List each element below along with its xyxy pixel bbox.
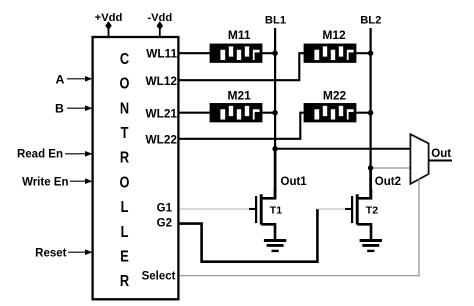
wire Select to mux — [180, 179, 420, 276]
ground (T1 source) — [264, 241, 286, 251]
transistor T1 — [249, 189, 275, 241]
svg-text:Out1: Out1 — [281, 176, 308, 188]
svg-text:Out2: Out2 — [375, 176, 401, 188]
junction dot Out1 — [272, 146, 277, 151]
+Vdd stem wire — [108, 28, 110, 38]
svg-text:Out: Out — [431, 148, 451, 160]
svg-text:BL2: BL2 — [360, 14, 381, 26]
svg-text:N: N — [120, 100, 129, 118]
svg-text:WL21: WL21 — [146, 107, 178, 121]
svg-text:Read En: Read En — [17, 148, 63, 160]
junction dot Out2 — [368, 165, 373, 170]
wire G2 jog to T2 gate — [317, 208, 347, 210]
transistor T2 — [345, 189, 371, 241]
memristor M22 — [304, 104, 355, 122]
input Write En wire arrow — [70, 178, 93, 184]
svg-text:R: R — [120, 273, 130, 291]
svg-text:A: A — [56, 73, 65, 87]
svg-text:R: R — [120, 149, 130, 167]
input Read En wire arrow — [65, 151, 93, 157]
svg-text:C: C — [120, 51, 130, 69]
wire M22 to BL2 — [355, 112, 371, 114]
controller vertical label C O N T R O L L E R — [120, 51, 130, 291]
svg-text:E: E — [120, 248, 129, 266]
wire M12 to BL2 — [355, 52, 371, 54]
svg-text:WL11: WL11 — [146, 47, 177, 61]
wire Out2 to mux — [371, 167, 411, 169]
junction dot M21/BL1 — [272, 110, 277, 115]
svg-text:M11: M11 — [228, 28, 251, 42]
svg-text:L: L — [121, 224, 129, 242]
svg-text:M22: M22 — [323, 89, 347, 103]
wire WL22 (steps up to M22) — [180, 113, 306, 139]
multiplexer U1 — [410, 134, 428, 184]
svg-text:M21: M21 — [228, 89, 252, 103]
svg-text:L: L — [121, 199, 129, 217]
svg-text:G2: G2 — [157, 218, 172, 230]
svg-text:WL22: WL22 — [146, 133, 178, 147]
wire G2 to T2 gate (detour path) — [180, 209, 318, 262]
junction dot M11/BL1 — [272, 51, 277, 56]
wire WL12 (steps up to M12) — [180, 53, 306, 80]
controller box — [93, 37, 179, 299]
junction dot M12/BL2 — [368, 51, 373, 56]
input Reset wire arrow — [68, 249, 93, 255]
memristor M11 — [210, 44, 261, 62]
svg-text:G1: G1 — [157, 203, 173, 215]
memristor M12 — [304, 44, 355, 62]
bit line BL1 wire — [274, 28, 276, 197]
+Vdd diamond terminal — [105, 21, 112, 30]
wire T2 drain (BL2 down to T2) — [369, 168, 372, 199]
svg-text:B: B — [55, 102, 64, 116]
svg-text:T1: T1 — [270, 204, 282, 216]
ground (T2 source) — [360, 241, 382, 251]
wire WL21 — [180, 112, 212, 114]
svg-text:Reset: Reset — [35, 247, 66, 259]
-Vdd stem wire — [159, 28, 161, 38]
memristor M21 — [210, 104, 261, 122]
junction dot M22/BL2 — [368, 110, 373, 115]
wire mux output — [429, 160, 452, 162]
wire G1 to T1 gate — [180, 208, 251, 210]
wire M11 to BL1 — [261, 52, 275, 54]
wire T1 drain (BL1 down to T1) — [274, 149, 277, 199]
svg-text:T: T — [121, 125, 129, 143]
svg-text:O: O — [120, 174, 130, 192]
wire WL11 — [180, 52, 212, 54]
svg-text:BL1: BL1 — [265, 14, 286, 26]
svg-text:Write En: Write En — [22, 177, 68, 189]
input B wire arrow — [67, 105, 93, 111]
svg-text:M12: M12 — [322, 28, 346, 42]
svg-text:T2: T2 — [366, 204, 378, 216]
wire M21 to BL1 — [261, 112, 275, 114]
svg-text:WL12: WL12 — [146, 74, 178, 88]
input A wire arrow — [67, 76, 93, 82]
svg-text:O: O — [120, 75, 130, 93]
wire Out1 to mux — [275, 148, 411, 150]
bit line BL2 wire — [370, 28, 372, 197]
-Vdd diamond terminal — [157, 21, 164, 30]
svg-text:Select: Select — [142, 270, 176, 282]
